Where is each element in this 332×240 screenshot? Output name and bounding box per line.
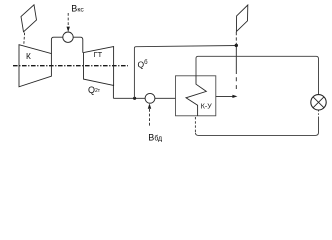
stack dashed riser bbox=[235, 32, 237, 45]
svg-text:К: К bbox=[26, 51, 31, 61]
heat consumer circle-X bbox=[311, 95, 326, 110]
combustion chamber circle bbox=[63, 32, 73, 42]
air intake stack parallelogram (left) bbox=[21, 5, 37, 32]
duct combustion chamber to GT inlet bbox=[73, 37, 83, 53]
Vks fuel arrow (dashed with solid head) bbox=[67, 13, 69, 27]
afterburner circle bbox=[145, 93, 155, 103]
heating coil zigzag bbox=[186, 76, 206, 116]
exhaust stack parallelogram (right) bbox=[236, 5, 247, 32]
junction node (bypass tee) bbox=[133, 97, 136, 100]
heat network supply wire bbox=[196, 56, 319, 94]
intake duct dashed connector bbox=[23, 33, 26, 45]
shaft axis dash-dot line bbox=[13, 65, 128, 67]
junction node at stack bbox=[235, 44, 238, 47]
gas turbine GT bbox=[84, 47, 114, 86]
gas wire burner to boiler bbox=[155, 97, 176, 99]
exhaust header wire bbox=[113, 97, 145, 99]
svg-text:ГТ: ГТ bbox=[94, 50, 103, 59]
Vbd fuel arrow (dashed with solid head) bbox=[148, 103, 151, 108]
boiler gas exit wire with arrow bbox=[216, 95, 235, 97]
GT exhaust drop bbox=[112, 85, 114, 98]
bypass riser wire bbox=[134, 46, 236, 99]
return wire consumer to boiler bbox=[318, 110, 320, 116]
svg-text:К-У: К-У bbox=[201, 103, 212, 110]
compressor K bbox=[19, 45, 51, 87]
waste-heat boiler box K-U bbox=[176, 76, 216, 116]
duct K outlet to combustion chamber bbox=[51, 37, 62, 53]
stack downcomer wire (solid then dashed) bbox=[235, 45, 237, 74]
